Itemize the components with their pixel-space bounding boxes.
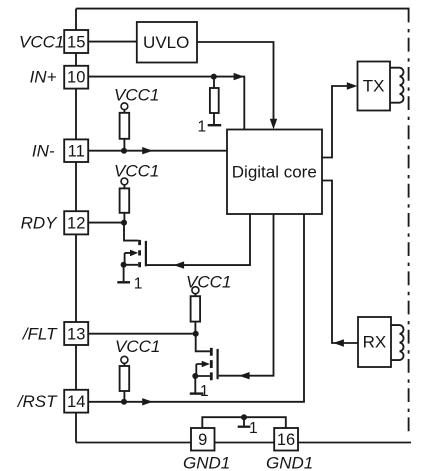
resistor R2 (IN- pullup) bbox=[120, 110, 130, 151]
arrow: into TX bbox=[347, 82, 358, 89]
svg-text:IN-: IN- bbox=[32, 142, 55, 161]
wire: IN+ net from pin10 to Digital core bbox=[88, 77, 244, 130]
svg-text:VCC1: VCC1 bbox=[115, 337, 160, 356]
wire: chip outline bottom (GND1 rail) bbox=[76, 442, 411, 444]
arrow: into Q1 gate bbox=[174, 261, 185, 268]
wire: pin15 to UVLO bbox=[88, 41, 136, 43]
svg-text:RDY: RDY bbox=[21, 213, 59, 232]
svg-text:13: 13 bbox=[67, 325, 85, 343]
svg-text:1: 1 bbox=[134, 275, 143, 292]
VCC1 terminal for R3 (RDY pullup) bbox=[121, 178, 128, 185]
VCC1 terminal for R5 (/RST pullup) bbox=[121, 356, 128, 363]
isolation boundary dash-dot line bbox=[408, 9, 410, 433]
transistor Q1 (RDY open-drain NMOS) bbox=[124, 223, 146, 282]
VCC1 terminal for R4 (/FLT pullup) bbox=[192, 287, 199, 294]
arrow: IN+ direction bbox=[234, 73, 245, 80]
node: /FLT junction dot bbox=[193, 331, 199, 337]
arrow: IN- direction bbox=[142, 147, 153, 154]
coil: TX transformer winding bbox=[390, 68, 403, 103]
arrow: /RST direction bbox=[142, 398, 153, 405]
node: GND1 bridge dot bbox=[241, 414, 247, 420]
block UVLO bbox=[137, 22, 197, 63]
block TX bbox=[358, 62, 391, 111]
svg-text:10: 10 bbox=[67, 68, 85, 86]
ground 1 (Q2 source) bbox=[190, 392, 204, 394]
svg-text:11: 11 bbox=[68, 143, 85, 161]
svg-text:/FLT: /FLT bbox=[22, 324, 58, 343]
ground 1 (GND1 bridge) bbox=[238, 417, 251, 427]
svg-text:UVLO: UVLO bbox=[143, 33, 189, 52]
svg-text:GND1: GND1 bbox=[266, 453, 313, 471]
pin 15 box bbox=[64, 30, 88, 53]
pin 9 box bbox=[191, 428, 215, 451]
svg-text:GND1: GND1 bbox=[183, 453, 230, 471]
svg-text:VCC1: VCC1 bbox=[19, 32, 64, 51]
svg-text:/RST: /RST bbox=[17, 392, 58, 411]
resistor R3 (RDY pullup) bbox=[120, 185, 130, 223]
svg-text:Digital core: Digital core bbox=[232, 162, 317, 181]
resistor R4 (/FLT pullup) bbox=[191, 294, 201, 334]
coil: RX transformer winding bbox=[391, 325, 403, 360]
wire: RX to Digital core bbox=[322, 181, 358, 344]
node: IN+ junction dot bbox=[211, 74, 217, 80]
arrow: UVLO into Digital core bbox=[270, 119, 277, 130]
arrow: into Q2 gate bbox=[239, 372, 250, 379]
wire: UVLO output to Digital core bbox=[196, 42, 274, 120]
svg-text:15: 15 bbox=[67, 33, 85, 51]
svg-text:9: 9 bbox=[198, 431, 207, 449]
pin 11 box bbox=[64, 139, 88, 162]
node: IN- junction dot bbox=[121, 148, 127, 154]
svg-text:12: 12 bbox=[67, 214, 85, 232]
pin 14 box bbox=[64, 390, 88, 413]
wire: Digital core to Q2 gate (FLT driver) bbox=[219, 214, 274, 376]
wire: chip outline left (pin rail) bbox=[75, 9, 77, 443]
svg-text:VCC1: VCC1 bbox=[114, 86, 159, 105]
wire: IN- net from pin11 to Digital core bbox=[88, 150, 227, 152]
node: Q1 source-body dot bbox=[121, 262, 127, 268]
node: RDY junction dot bbox=[121, 220, 127, 226]
wire: RDY net from pin12 bbox=[88, 222, 124, 224]
wire: /RST net from pin14 to Digital core bbox=[88, 214, 304, 402]
resistor R1 (IN+ pulldown) bbox=[210, 77, 219, 125]
svg-text:1: 1 bbox=[197, 119, 206, 136]
arrow: RX into Digital core bbox=[333, 339, 344, 346]
svg-text:1: 1 bbox=[249, 420, 258, 437]
wire: chip outline top (VCC1 rail) bbox=[76, 8, 410, 10]
block RX bbox=[358, 317, 391, 367]
pin 10 box bbox=[64, 66, 88, 89]
wire: Digital core to TX bbox=[322, 86, 348, 158]
svg-text:1: 1 bbox=[200, 383, 209, 400]
svg-text:TX: TX bbox=[363, 77, 385, 96]
svg-text:RX: RX bbox=[363, 333, 387, 352]
svg-text:VCC1: VCC1 bbox=[186, 273, 231, 292]
transistor Q2 (/FLT open-drain NMOS) bbox=[195, 334, 217, 393]
pin 13 box bbox=[64, 322, 88, 345]
svg-text:IN+: IN+ bbox=[30, 67, 57, 86]
wire: GND1 bridge pin9 to pin16 bbox=[202, 417, 285, 428]
block Digital core bbox=[227, 130, 322, 215]
pin 12 box bbox=[64, 211, 88, 234]
svg-text:16: 16 bbox=[277, 431, 295, 449]
ground 1 (below R1) bbox=[208, 124, 222, 126]
resistor R5 (/RST pullup) bbox=[120, 363, 130, 402]
wire: Digital core to Q1 gate (RDY driver) bbox=[147, 214, 250, 265]
pin 16 box bbox=[274, 428, 298, 451]
wire: /FLT net from pin13 bbox=[88, 333, 196, 335]
node: /RST junction dot bbox=[121, 399, 127, 405]
svg-text:14: 14 bbox=[67, 393, 85, 411]
svg-text:VCC1: VCC1 bbox=[114, 162, 159, 181]
VCC1 terminal for R2 (IN- pullup) bbox=[121, 103, 128, 110]
ground 1 (Q1 source) bbox=[117, 281, 130, 283]
node: Q2 source-body dot bbox=[192, 373, 198, 379]
